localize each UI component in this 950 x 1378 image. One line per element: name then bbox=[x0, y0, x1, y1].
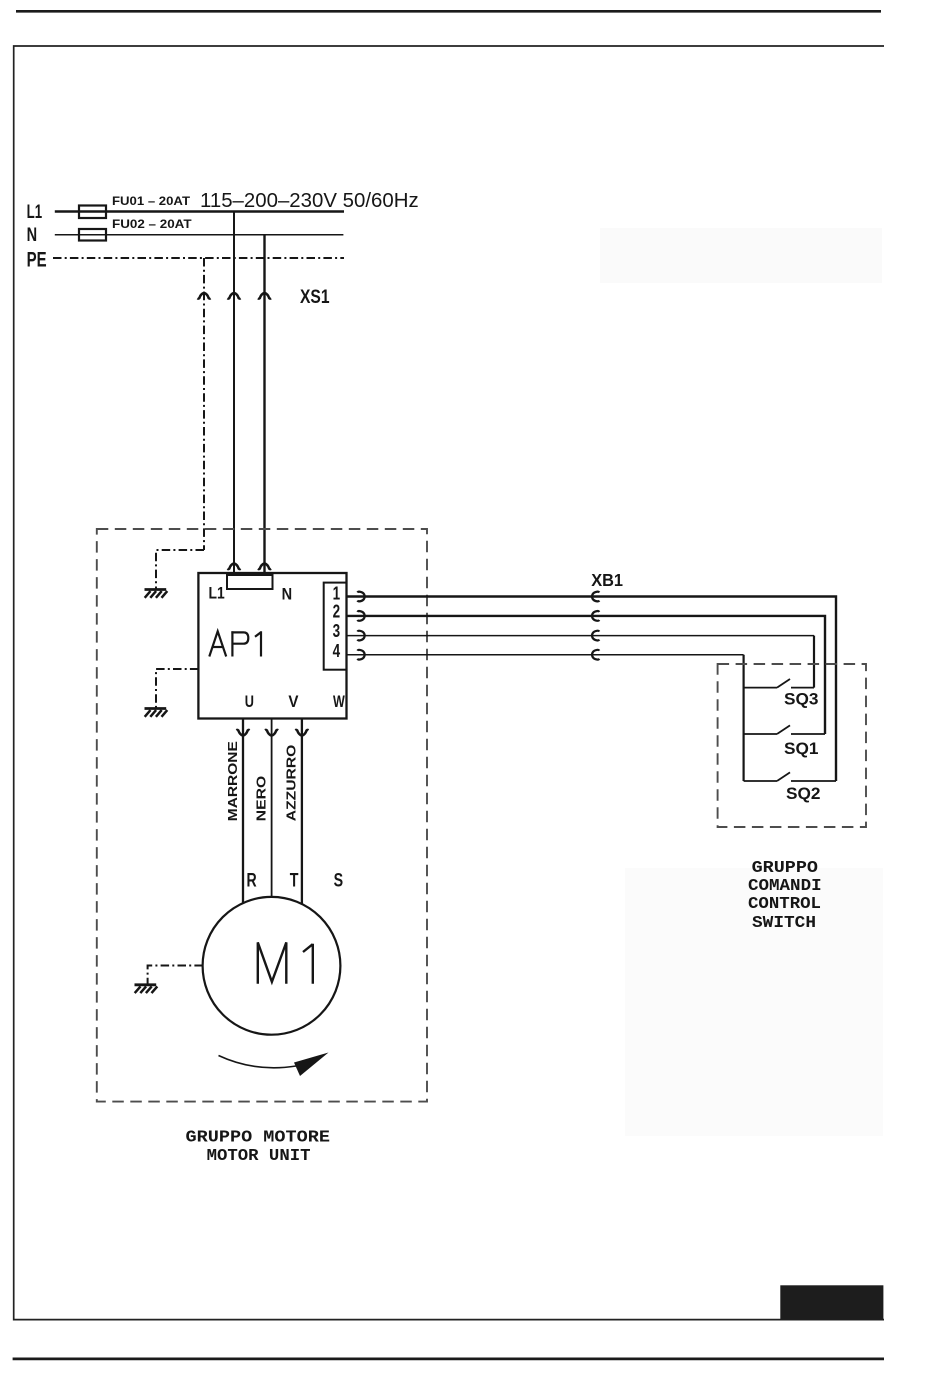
switch SQ2 bbox=[744, 772, 836, 781]
svg-text:SWITCH: SWITCH bbox=[752, 914, 816, 933]
connector XS1 pin N bbox=[258, 293, 271, 299]
control switch caption bbox=[748, 859, 822, 933]
wire L1 drop bbox=[233, 212, 235, 574]
page top rule bbox=[16, 10, 881, 13]
svg-text:3: 3 bbox=[333, 621, 341, 641]
wire PE to ground 1 bbox=[156, 550, 204, 589]
connector XB1 socket pin2 bbox=[592, 611, 599, 621]
svg-text:N: N bbox=[27, 225, 37, 246]
scan shading lower right bbox=[625, 868, 883, 1136]
rotation direction arrow bbox=[219, 1056, 297, 1068]
wire motor chassis ground bbox=[148, 966, 203, 985]
svg-text:GRUPPO: GRUPPO bbox=[752, 859, 818, 878]
connector below AP1 W bbox=[295, 730, 308, 736]
wire PE drop bbox=[203, 258, 205, 550]
connector XB1 socket pin3 bbox=[592, 631, 599, 641]
motor unit dashed enclosure bbox=[97, 529, 427, 1102]
wire XB1-2 bbox=[347, 616, 826, 734]
svg-text:XB1: XB1 bbox=[591, 570, 623, 590]
connector plug pin4 bbox=[357, 650, 364, 660]
wire N bus bbox=[55, 234, 344, 236]
control switch dashed enclosure bbox=[718, 664, 866, 827]
motor unit caption bbox=[186, 1129, 331, 1166]
wire W to motor bbox=[301, 719, 303, 905]
svg-text:FU01 – 20AT: FU01 – 20AT bbox=[112, 196, 190, 208]
svg-text:SQ2: SQ2 bbox=[786, 784, 821, 803]
svg-text:GRUPPO MOTORE: GRUPPO MOTORE bbox=[186, 1129, 331, 1148]
connector below AP1 V bbox=[265, 730, 278, 736]
wire XB1-4 bbox=[347, 654, 744, 656]
svg-text:SQ3: SQ3 bbox=[784, 690, 819, 709]
fuse FU2 bbox=[79, 229, 106, 241]
connector XS1 pin L1 bbox=[227, 293, 240, 299]
connector plug pin3 bbox=[357, 631, 364, 641]
motor M1 circle bbox=[203, 897, 341, 1035]
svg-text:AZZURRO: AZZURRO bbox=[284, 745, 299, 822]
connector plug pin2 bbox=[357, 611, 364, 621]
switch SQ1 bbox=[744, 725, 825, 734]
wire XB1-1 bbox=[347, 597, 837, 782]
svg-text:PE: PE bbox=[27, 248, 47, 271]
svg-text:N: N bbox=[282, 586, 293, 604]
wire AP1 chassis ground bbox=[156, 669, 198, 708]
svg-text:115–200–230V 50/60Hz: 115–200–230V 50/60Hz bbox=[200, 189, 419, 212]
wire N drop bbox=[263, 235, 265, 573]
svg-text:V: V bbox=[288, 692, 299, 711]
scan shading top right bbox=[600, 228, 882, 283]
page bottom rule bbox=[13, 1358, 884, 1361]
wire V to motor bbox=[271, 719, 273, 897]
fuse FU1 bbox=[79, 206, 106, 219]
svg-text:T: T bbox=[290, 870, 299, 891]
AP1 designator (drawn strokes) bbox=[209, 631, 261, 656]
ground motor bbox=[135, 985, 158, 993]
svg-text:W: W bbox=[333, 692, 346, 711]
svg-text:SQ1: SQ1 bbox=[784, 739, 819, 758]
connector XB1 socket pin1 bbox=[592, 592, 599, 602]
connector above AP1 N bbox=[258, 563, 271, 569]
AP1 output pin strip bbox=[324, 583, 347, 670]
svg-text:L1: L1 bbox=[27, 202, 43, 223]
svg-text:CONTROL: CONTROL bbox=[748, 895, 821, 914]
connector XS1 pin PE bbox=[197, 293, 210, 299]
svg-text:NERO: NERO bbox=[253, 776, 268, 821]
svg-text:U: U bbox=[245, 692, 254, 711]
svg-text:MARRONE: MARRONE bbox=[225, 741, 240, 821]
svg-text:MOTOR UNIT: MOTOR UNIT bbox=[207, 1147, 311, 1166]
connector XB1 socket pin4 bbox=[592, 650, 599, 660]
svg-text:S: S bbox=[334, 870, 344, 891]
ground PE bbox=[145, 590, 168, 598]
ground AP1 bbox=[145, 709, 168, 717]
switch SQ3 bbox=[744, 679, 814, 688]
connector above AP1 L1 bbox=[227, 563, 240, 569]
title block black cell bbox=[780, 1285, 883, 1319]
svg-text:4: 4 bbox=[333, 641, 341, 661]
connector below AP1 U bbox=[236, 730, 249, 736]
svg-text:FU02 – 20AT: FU02 – 20AT bbox=[112, 219, 192, 231]
svg-text:2: 2 bbox=[333, 601, 341, 621]
svg-text:L1: L1 bbox=[209, 584, 225, 602]
motor M1 designator (drawn strokes) bbox=[258, 942, 313, 983]
svg-text:COMANDI: COMANDI bbox=[748, 877, 822, 896]
connector plug pin1 bbox=[357, 592, 364, 602]
wire PE bus dash-dot bbox=[53, 257, 344, 259]
AP1 input terminal block bbox=[227, 575, 273, 589]
control board AP1 box bbox=[198, 573, 346, 719]
svg-text:R: R bbox=[247, 870, 257, 891]
wire L1 bus bbox=[55, 210, 344, 213]
wire U to motor bbox=[242, 719, 244, 904]
wire XB1-3 bbox=[347, 635, 815, 637]
svg-text:XS1: XS1 bbox=[300, 287, 330, 308]
